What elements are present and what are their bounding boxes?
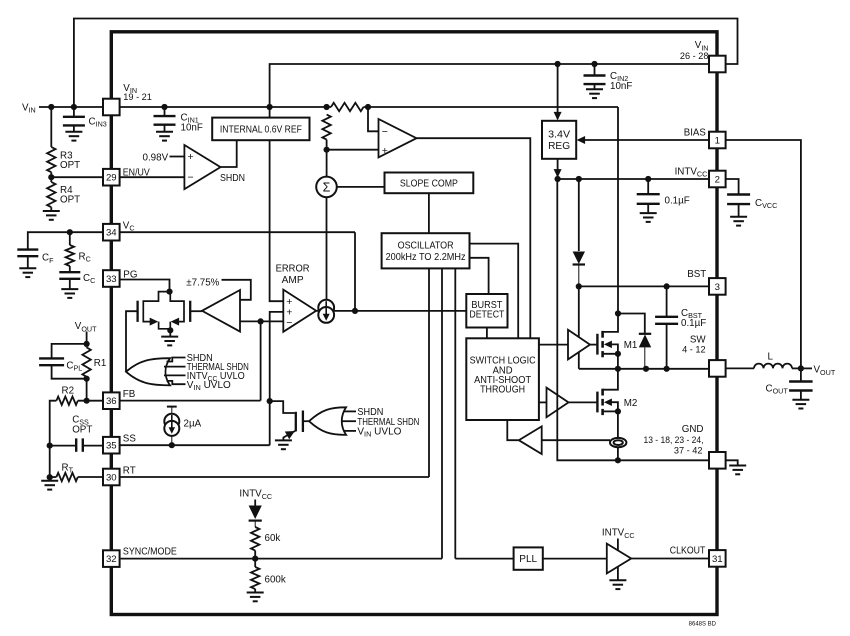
svg-text:ERROR: ERROR (276, 263, 310, 274)
wire CSS left lead (50, 445, 76, 447)
wire FB column to - input (260, 321, 262, 400)
wire INTVCC rail down to GND row (557, 179, 709, 460)
resistor slope comp feed (horizontal) (331, 103, 364, 111)
ground at GND pin (729, 466, 746, 475)
junction VOUT/R1/CPL (84, 341, 90, 347)
pin 34 VC (103, 224, 120, 241)
gate bar right of transmission pair (189, 301, 191, 322)
wire M1 drain lead (603, 314, 618, 332)
wire right gate to window comparator (190, 310, 202, 312)
wire CVCC to ground (738, 204, 740, 216)
wire sigma to slope comp box (337, 186, 385, 188)
wire inductor to VOUT node (792, 367, 801, 369)
wire COUT stem (800, 368, 802, 380)
wire M1 bulk lead (612, 344, 618, 353)
capacitor CPL (39, 358, 64, 365)
wire REG feed down (557, 64, 559, 119)
arrow transmission gate right (points left) (171, 318, 180, 326)
wire CIN3 to ground (73, 125, 75, 131)
resistor slope divider (vertical) (322, 115, 330, 140)
pin 35 SS (103, 437, 120, 454)
arrow inside error amp current source (323, 314, 330, 321)
pin 3 BST (709, 278, 726, 295)
wire R4 to ground (50, 207, 52, 211)
wire switch logic to M1 driver (539, 344, 568, 346)
svg-text:SS: SS (123, 434, 137, 445)
svg-text:DETECT: DETECT (469, 310, 504, 321)
junction divider tap (324, 147, 330, 153)
svg-text:CLKOUT: CLKOUT (670, 546, 706, 557)
junction SW/M1 source (615, 366, 621, 372)
ground below CIN1 (156, 132, 173, 141)
svg-text:31: 31 (712, 554, 723, 565)
arrow SS FET source (285, 431, 295, 439)
svg-text:VOUT: VOUT (814, 365, 836, 377)
svg-text:60k: 60k (265, 533, 281, 544)
svg-text:±7.75%: ±7.75% (186, 277, 219, 288)
svg-text:10nF: 10nF (181, 122, 203, 133)
wire OR1 input INTVCC UVLO stub (164, 374, 186, 376)
summing node sigma (316, 177, 337, 198)
buffer anti-shoot-through sense (points left) (519, 426, 542, 454)
svg-text:OSCILLATOR: OSCILLATOR (398, 241, 454, 252)
svg-text:2µA: 2µA (184, 418, 202, 429)
wire RT row pin 30 to oscillator (120, 476, 429, 478)
wire PWM comparator output to switch logic (417, 138, 531, 338)
wire CBST bottom lead (666, 324, 668, 369)
ground below R4 (43, 211, 60, 220)
wire CF to ground (27, 256, 29, 268)
ground below CIN2 (586, 89, 603, 98)
wire oscillator to burst detect (470, 258, 489, 294)
wire VIN row to M1 drain rail (364, 106, 619, 108)
wire OR2 input VIN UVLO stub (344, 430, 357, 432)
svg-text:EN/UV: EN/UV (123, 167, 150, 178)
resistor R1 (82, 347, 90, 376)
svg-text:COUT: COUT (766, 383, 789, 395)
or-gate PG mask (4-input) (126, 358, 170, 385)
block PLL (514, 547, 543, 569)
svg-text:32: 32 (106, 554, 117, 565)
wire REG output (557, 159, 559, 179)
wire divider to + node (326, 140, 328, 150)
svg-text:REG: REG (548, 141, 570, 152)
junction RC/CF on VC row (67, 229, 73, 235)
arrow BIAS into REG (577, 136, 586, 144)
wire CPL bottom (52, 366, 87, 379)
wire OR1 input SHDN stub (167, 358, 186, 362)
pin VIN 19-21 (103, 99, 120, 116)
svg-text:8648S BD: 8648S BD (689, 621, 717, 627)
svg-text:M1: M1 (624, 340, 638, 351)
capacitor CIN3 (63, 117, 85, 126)
wire 7.75% reference into comparator (222, 280, 251, 300)
wire EN/UV row from divider to pin 29 (51, 176, 103, 178)
junction M1 source/bulk (615, 351, 621, 357)
svg-text:33: 33 (106, 274, 117, 285)
transistor SS discharge FET gate bar (302, 411, 304, 433)
svg-text:0.98V: 0.98V (143, 153, 169, 164)
wire BST rail to M1 driver (578, 286, 580, 337)
svg-text:M2: M2 (624, 398, 638, 409)
ground below SS FET (275, 440, 292, 449)
block SWITCH LOGIC AND ANTI-SHOOT THROUGH (466, 338, 539, 420)
wire VIN rail down to M1 drain (617, 107, 619, 314)
diode M1 body diode (639, 334, 651, 369)
wire RC stem (69, 232, 71, 245)
wire VC row (120, 231, 355, 233)
wire R1 to FB row (86, 377, 88, 401)
wire BIAS to VOUT rail (726, 140, 801, 368)
svg-text:VIN UVLO: VIN UVLO (357, 427, 401, 439)
wire oscillator to RT (428, 268, 430, 477)
junction error amp - / window comparator / FB (258, 318, 264, 324)
wire OR2 input THERMAL SHDN stub (341, 420, 356, 422)
svg-text:SHDN: SHDN (220, 173, 245, 184)
junction SW/CBST (664, 366, 670, 372)
junction FB/R1/R2 (84, 398, 90, 404)
ground below COUT (792, 400, 809, 409)
capacitor COUT (789, 382, 813, 391)
junction VIN/R3 (48, 104, 54, 110)
wire M1 source lead (603, 354, 618, 369)
svg-text:3: 3 (715, 282, 720, 293)
svg-text:RC: RC (79, 251, 91, 263)
wire CBST top lead (666, 286, 668, 316)
svg-text:AMP: AMP (282, 275, 304, 286)
buffer M1 gate driver (568, 330, 590, 360)
svg-text:BST: BST (687, 269, 706, 280)
wire VIN row to VIN 26-28 (inner top wire) (270, 64, 709, 107)
resistor 60k (251, 527, 259, 551)
wire 60k to row (254, 551, 256, 559)
svg-text:200kHz TO 2.2MHz: 200kHz TO 2.2MHz (386, 252, 466, 263)
resistor RT (56, 473, 77, 481)
wire M1 gate lead (590, 344, 596, 346)
wire CVCC lead (726, 179, 739, 194)
svg-text:CIN3: CIN3 (89, 117, 107, 129)
arrow M1 bulk (604, 341, 612, 349)
ground below 600k (247, 593, 264, 602)
wire BST row (579, 285, 710, 287)
block OSCILLATOR 200kHz TO 2.2MHz (382, 233, 470, 268)
wire PLL to clock buffer (543, 558, 607, 560)
capacitor CBST (655, 317, 678, 324)
wire FB sense into window comparator (240, 320, 261, 322)
junction top wire/REG feed (555, 61, 561, 67)
or-gate SS clamp (3-input) (309, 407, 346, 435)
junction VIN/CIN1 (161, 104, 167, 110)
wire FB row to error amp column (120, 400, 261, 402)
svg-text:OPT: OPT (60, 160, 80, 171)
wire VOUT node to label (801, 367, 812, 369)
svg-text:R1: R1 (94, 358, 107, 369)
wire SYNC/MODE row (121, 558, 442, 560)
svg-text:0.1µF: 0.1µF (665, 195, 690, 206)
wire VC to CF (28, 232, 103, 249)
svg-text:35: 35 (106, 441, 117, 452)
wire SHDN comparator output to REF (221, 140, 237, 167)
wire CPL top (52, 344, 87, 358)
resistor RC (66, 245, 74, 266)
svg-text:OPT: OPT (60, 195, 80, 206)
wire CIN2 stem (594, 64, 596, 75)
pin VIN 26-28 (709, 56, 726, 73)
svg-text:1: 1 (715, 135, 720, 146)
svg-text:SYNC/MODE: SYNC/MODE (123, 547, 177, 558)
wire SW pin to inductor (726, 367, 754, 369)
wire transmission gate to ground (169, 330, 171, 336)
junction RT/ground (47, 474, 53, 480)
wire tap down to sigma (326, 150, 328, 177)
svg-text:CC: CC (83, 273, 95, 285)
op-amp window comparator (PG) (202, 290, 240, 332)
wire VIN dot to R3 (50, 107, 52, 147)
wire oscillator to PLL (454, 268, 456, 558)
junction INTVCC rail (555, 176, 561, 182)
wire 600k to ground (254, 589, 256, 592)
svg-text:+: + (382, 145, 388, 157)
junction VIN row/REF vertical (267, 104, 273, 110)
wire SW row (579, 368, 710, 370)
wire R2 left corner down (50, 401, 57, 446)
svg-text:INTVCC: INTVCC (675, 166, 708, 178)
wire VIN row (pin 19-21 to slope-comp divider) (120, 106, 331, 108)
wire INTVCC stub to buffer (617, 539, 619, 551)
wire error amp second + input from FB node (270, 312, 284, 445)
IC body border (111, 32, 717, 615)
svg-text:FB: FB (123, 389, 136, 400)
resistor R2 (56, 397, 77, 405)
pin 2 INTVCC (709, 171, 726, 188)
pin 32 SYNC/MODE (103, 550, 120, 567)
ground below transmission gate (161, 337, 178, 346)
ground below CLKOUT buffer (609, 580, 626, 589)
capacitor CSS (76, 438, 83, 451)
svg-text:26 - 28: 26 - 28 (680, 51, 709, 61)
capacitor INTVCC 0.1uF (637, 194, 660, 204)
current source 2uA (164, 407, 179, 446)
gate bar left of transmission pair (136, 301, 138, 322)
junction CSS left (47, 443, 53, 449)
pin 1 BIAS (709, 132, 726, 149)
wire SS row (120, 444, 270, 446)
svg-text:13 - 18, 23 - 24,: 13 - 18, 23 - 24, (644, 435, 704, 445)
wire VIN branch down to PWM comparator - (368, 107, 379, 131)
svg-text:RT: RT (123, 465, 136, 476)
pin GND 13-42 (709, 452, 726, 469)
arrow into 3.4V REG (554, 112, 562, 121)
wire M2 source lead (603, 410, 618, 412)
svg-text:600k: 600k (265, 574, 286, 585)
wire INTVCC stem to diode (254, 500, 256, 506)
wire VC down to error amp output (354, 232, 356, 311)
wire 0.1uF to ground (647, 204, 649, 213)
capacitor CIN1 (154, 116, 176, 125)
wire bootstrap diode top lead (578, 179, 580, 251)
wire BIAS into REG (584, 139, 710, 141)
junction INTVCC/0.1uF (645, 176, 651, 182)
capacitor CIN2 (584, 76, 606, 85)
svg-text:VIN UVLO: VIN UVLO (187, 380, 231, 392)
wire PG pin to transmission gate (120, 280, 170, 292)
wire left gate to OR gate (126, 311, 138, 372)
capacitor CVCC (727, 195, 750, 205)
wire sense input from SW node (542, 439, 610, 441)
arrow inside 2uA source (169, 427, 176, 434)
junction VC/error amp output (352, 308, 358, 314)
op-amp PWM comparator U3 (379, 119, 417, 157)
wire RC to CC (69, 266, 71, 271)
svg-text:PG: PG (123, 269, 137, 280)
svg-text:PLL: PLL (519, 554, 537, 565)
wire M2 bulk lead (612, 402, 618, 411)
current source at error amp output (318, 300, 334, 323)
svg-text:BIAS: BIAS (684, 128, 706, 139)
ground below CF (19, 268, 36, 277)
ground below 0.1uF (640, 213, 657, 222)
wire M2 drain lead (603, 369, 618, 390)
wire sense output to switch logic (507, 420, 519, 440)
transistor SS discharge FET channel (295, 412, 297, 432)
svg-text:10nF: 10nF (610, 81, 632, 92)
block 3.4V REG (542, 121, 576, 159)
transistor M2 channel segments (601, 389, 604, 415)
junction transmission gate bottom (167, 327, 173, 333)
arrow REG output (554, 169, 562, 178)
junction VIN row/comparator branch (365, 104, 371, 110)
wire M2 source down to GND row (617, 411, 619, 460)
wire FET gate to OR2 (303, 420, 309, 422)
svg-text:+: + (188, 151, 194, 163)
ground below CIN3 (65, 132, 82, 141)
wire burst detect to switch logic (486, 328, 488, 339)
svg-text:−: − (188, 172, 194, 184)
junction VIN row/slope resistor (324, 104, 330, 110)
transistor M2 gate bar (596, 392, 598, 413)
capacitor CF (17, 250, 38, 257)
svg-text:INTVCC: INTVCC (602, 528, 635, 540)
buffer M2 gate driver (547, 388, 569, 418)
svg-text:CPL: CPL (66, 361, 82, 373)
junction VIN/CIN3/top-loop (71, 104, 77, 110)
wire CLKOUT (631, 558, 709, 560)
svg-text:R2: R2 (62, 386, 75, 397)
wire 0.98V to comparator + (170, 156, 185, 158)
junction body diode/SW row (643, 366, 649, 372)
wire error amp output row (316, 310, 466, 312)
wire VIN top loop (left VIN node up and across to VIN 26-28 pin) (74, 19, 738, 108)
svg-text:4 - 12: 4 - 12 (682, 344, 706, 354)
pin 36 FB (103, 392, 120, 409)
pin 30 RT (103, 469, 120, 486)
block SLOPE COMP (385, 173, 474, 194)
transistor M1 channel segments (601, 331, 604, 357)
op-amp error amplifier (283, 290, 316, 332)
inductor L (754, 364, 792, 369)
svg-text:INTERNAL 0.6V REF: INTERNAL 0.6V REF (220, 125, 302, 136)
wire pin 29 to comparator - (120, 176, 185, 178)
svg-text:VC: VC (123, 220, 135, 232)
svg-text:−: − (382, 126, 388, 138)
wire oscillator to switch logic (right top) (470, 244, 519, 339)
wire RT left lead (50, 476, 57, 478)
resistor 600k (251, 567, 259, 589)
wire FET source to ground (283, 431, 295, 441)
wire buffer to ground (617, 567, 619, 581)
junction R3/R4/EN (48, 174, 54, 180)
svg-text:36: 36 (106, 396, 117, 407)
wire M2 gate lead (569, 401, 597, 403)
wire CIN1 to ground (164, 125, 166, 132)
wire REF output down to error amp + input (270, 140, 284, 301)
wire OR1 input VIN UVLO stub (167, 381, 186, 384)
wire M1 drain node to body diode (618, 314, 645, 334)
wire CC to ground (69, 279, 71, 289)
wire CSS right lead to SS pin (84, 445, 103, 447)
wire row to 600k (254, 559, 256, 567)
transmission gate outline (143, 292, 184, 329)
svg-text:2: 2 (715, 174, 720, 185)
wire RT to pin 30 (78, 476, 103, 478)
svg-text:34: 34 (106, 228, 117, 239)
resistor R4 (47, 182, 55, 207)
junction SS/2uA (169, 442, 175, 448)
wire CSS column down to RT (49, 446, 51, 478)
wire REF vertical from VIN row to box (269, 107, 271, 118)
svg-text:CVCC: CVCC (755, 198, 777, 210)
wire M1 driver low rail to SW (578, 352, 580, 369)
junction BST/CBST (664, 283, 670, 289)
junction BST/driver rail (576, 283, 582, 289)
wire COUT to ground (800, 391, 802, 400)
wire VOUT stem (86, 332, 88, 348)
wire slope comp to oscillator (428, 193, 430, 233)
wire CIN3 stem (73, 107, 75, 116)
wire PLL row left (455, 558, 513, 560)
sense oval on M2 source (610, 438, 626, 447)
wire 0.1uF stem (647, 179, 649, 193)
pin 29 EN/UV (103, 169, 120, 186)
junction CIN2 on top wire (591, 61, 597, 67)
wire R3-R4 junction to R4 (50, 172, 52, 182)
block BURST DETECT (466, 294, 507, 328)
block INTERNAL 0.6V REF (212, 118, 309, 141)
resistor R3 (47, 147, 55, 172)
ground below RT divider (41, 481, 58, 490)
svg-text:VIN: VIN (22, 103, 36, 115)
wire CIN2 to ground (594, 84, 596, 89)
junction VOUT node (798, 365, 804, 371)
wire OR2 input SHDN stub (344, 410, 357, 412)
wire INTVCC row (558, 178, 710, 180)
svg-text:19 - 21: 19 - 21 (123, 92, 152, 102)
pin 31 CLKOUT (709, 550, 726, 567)
capacitor CC (59, 272, 80, 279)
junction SYNC/divider (252, 556, 258, 562)
junction M1 drain node (615, 310, 621, 316)
transistor M1 gate bar (596, 334, 598, 355)
wire CIN1 stem (164, 107, 166, 115)
ground below CVCC (730, 217, 747, 226)
ground below CC (61, 289, 78, 298)
junction INTVCC/bootstrap diode (576, 176, 582, 182)
svg-text:37 - 42: 37 - 42 (674, 445, 703, 455)
wire VIN input row (39, 106, 103, 108)
diode INTVCC mode divider (249, 506, 262, 528)
svg-text:0.1µF: 0.1µF (681, 318, 706, 329)
op-amp EN/UV comparator U2 (184, 145, 220, 189)
